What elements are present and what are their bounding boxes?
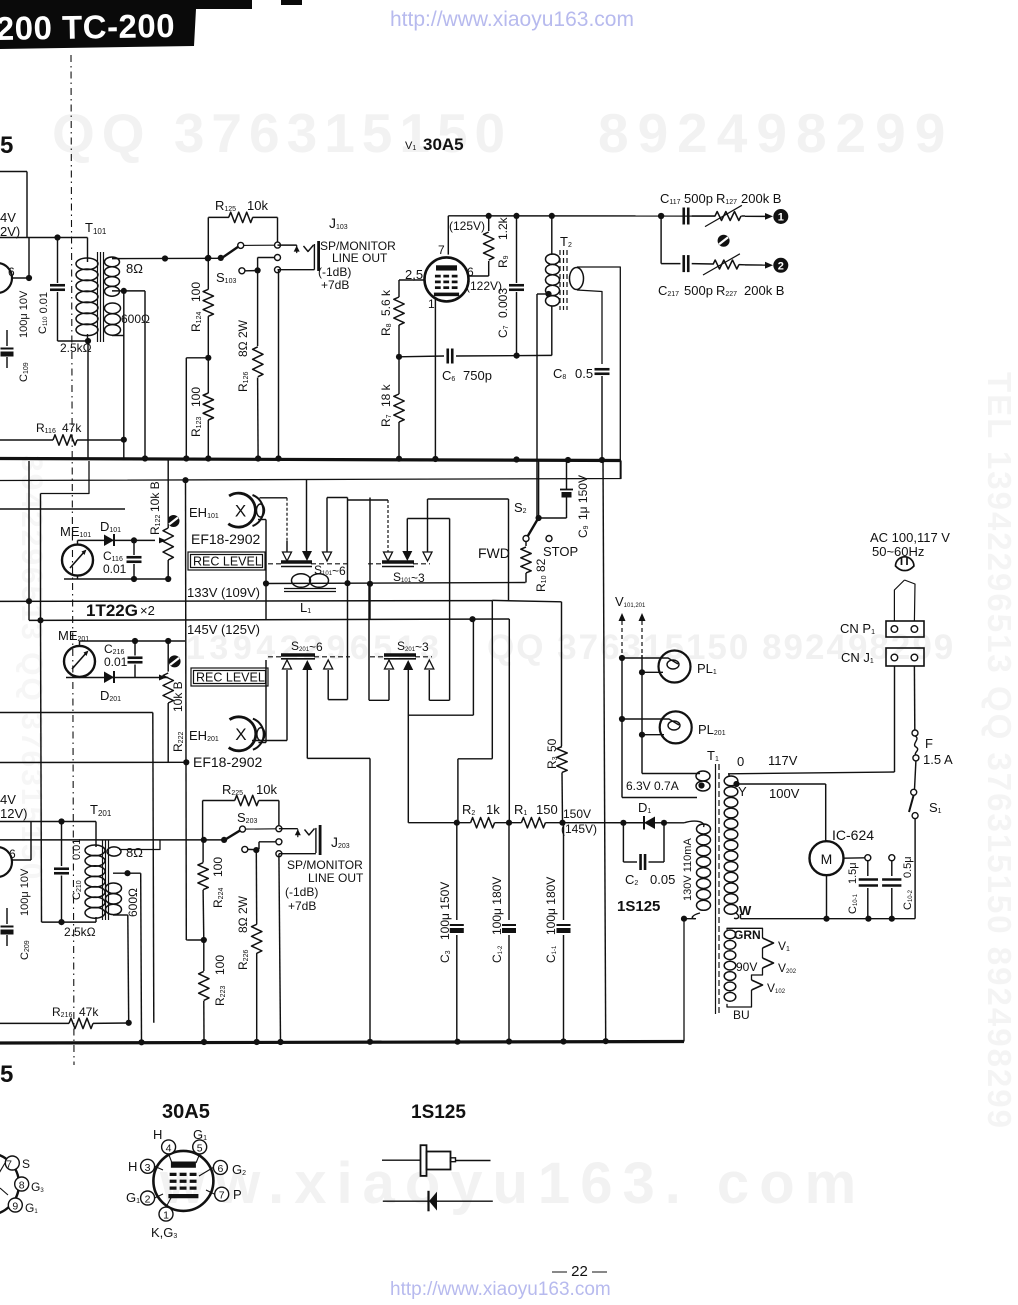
- label S201-3: [397, 639, 429, 654]
- wire T2 primary bottom leg: [551, 306, 553, 355]
- svg-text:100: 100: [213, 955, 227, 975]
- svg-text:+7dB: +7dB: [321, 278, 349, 292]
- svg-text:EF18-2902: EF18-2902: [193, 754, 262, 770]
- svg-text:100: 100: [189, 282, 203, 302]
- wire S201-6 right leg: [328, 670, 347, 700]
- terminal 1: [773, 209, 788, 224]
- tube V1: [425, 257, 469, 301]
- label R225 10k: [222, 782, 277, 797]
- wire bus B- upper: [0, 459, 621, 461]
- pin 3: [141, 1159, 155, 1174]
- label ME201: [58, 628, 89, 643]
- label C2 0.05: [625, 872, 675, 887]
- rec level box ch1: [188, 552, 265, 570]
- svg-text:0.01: 0.01: [71, 839, 83, 860]
- head EH201: [229, 717, 265, 751]
- label G1 top: [193, 1127, 207, 1142]
- label 117V: [768, 753, 798, 768]
- switch S101-6 bar: [281, 562, 312, 567]
- svg-text:0.5: 0.5: [575, 366, 593, 381]
- label C209 100u 10V: [19, 868, 31, 960]
- wire W rail: [741, 914, 916, 922]
- potentiometer R222: [159, 641, 173, 763]
- label R127 200k B: [716, 191, 781, 206]
- label D101: [100, 519, 121, 534]
- svg-text:8Ω: 8Ω: [126, 845, 143, 860]
- svg-text:4V: 4V: [0, 210, 16, 225]
- node dots on upper bus: [142, 455, 605, 463]
- resistor R216: [0, 1018, 132, 1028]
- transformer T101 secondary 600ohm: [105, 303, 121, 336]
- capacitor C1-2: [502, 823, 516, 1042]
- svg-text:150: 150: [536, 802, 558, 817]
- fold mark dashed line: [71, 55, 74, 1065]
- node R224 R223: [186, 937, 207, 943]
- label 5 left top: [0, 132, 13, 159]
- switch S101-3 arrows: [384, 551, 433, 561]
- svg-text:2V): 2V): [0, 224, 20, 239]
- screw R127: [718, 235, 730, 247]
- label CN J1: [841, 650, 874, 665]
- svg-text:http://www.xiaoyu163.com: http://www.xiaoyu163.com: [390, 8, 634, 31]
- label R116 47k: [36, 421, 82, 435]
- label 30A5 socket title: [162, 1101, 210, 1123]
- svg-text:100: 100: [211, 857, 225, 877]
- label R3 50: [545, 738, 559, 769]
- svg-text:IC-624: IC-624: [832, 827, 874, 843]
- label C10-2 0.5u: [902, 856, 914, 910]
- label EF18-2902 ch2: [193, 754, 262, 770]
- resistor R3: [557, 602, 567, 823]
- capacitor C216: [128, 641, 143, 678]
- label S101-3: [393, 570, 425, 585]
- label D201: [100, 688, 121, 703]
- wire R225 right leg: [278, 801, 280, 826]
- wire T1 primary top: [728, 666, 895, 774]
- svg-text:CN J1: CN J1: [841, 650, 874, 665]
- svg-text:0.05: 0.05: [650, 872, 675, 887]
- node R8 R7 C6: [396, 354, 402, 360]
- svg-text:200k B: 200k B: [744, 283, 784, 298]
- label C217 500p: [658, 283, 713, 298]
- label R2 1k: [462, 802, 500, 817]
- svg-text:(125V): (125V): [449, 219, 485, 233]
- label R10 82: [534, 558, 548, 592]
- arrow V101 right: [639, 613, 646, 774]
- wire T2 tap to S2 col: [537, 294, 549, 518]
- wire col 473: [408, 619, 473, 715]
- label FWD: [478, 545, 510, 561]
- title banner TC-200: [0, 0, 302, 49]
- label S201-6: [291, 639, 323, 654]
- svg-text:47k: 47k: [62, 421, 82, 435]
- label 90V: [736, 960, 757, 974]
- label 1S125 D1: [617, 898, 660, 915]
- switch S1: [909, 789, 918, 818]
- svg-text:2.5kΩ: 2.5kΩ: [60, 341, 92, 355]
- label C110 0.01: [37, 292, 50, 334]
- svg-text:6: 6: [8, 265, 15, 279]
- chevron V202: [763, 958, 797, 975]
- capacitor C6: [399, 349, 552, 364]
- wire 6.3V bottom: [622, 797, 697, 799]
- lamp PL201: [619, 711, 692, 743]
- label EH101: [189, 505, 219, 520]
- label 600 ohm ch1: [121, 312, 150, 326]
- pin 2: [141, 1191, 155, 1206]
- label C3 100u 150V: [438, 882, 452, 963]
- capacitor C10-1: [859, 855, 878, 919]
- potentiometer R122: [159, 460, 173, 579]
- label C116 0.01: [103, 549, 127, 576]
- wire pin6 ch1: [11, 238, 32, 282]
- switch S201-6 bar: [281, 655, 315, 659]
- svg-text:9: 9: [12, 1201, 18, 1213]
- svg-text:90V: 90V: [736, 960, 757, 974]
- label S101-6: [314, 563, 346, 578]
- transformer T2 core: [560, 250, 567, 310]
- svg-text:8Ω 2W: 8Ω 2W: [236, 895, 250, 933]
- label R8 5.6k: [379, 289, 393, 336]
- label R227 200k B: [716, 283, 784, 298]
- switch S203 contacts: [242, 839, 282, 857]
- jack J203 body: [316, 825, 320, 855]
- svg-text:CN P1: CN P1: [840, 621, 875, 636]
- wire fuse to CNJ1: [913, 666, 915, 730]
- wire V1 pin7: [447, 216, 449, 255]
- motor M: [810, 841, 844, 875]
- label R124 100: [189, 282, 203, 332]
- svg-text:FWD: FWD: [478, 545, 510, 561]
- wire step y509: [0, 508, 125, 510]
- svg-text:750p: 750p: [463, 368, 492, 383]
- svg-text:QQ 376315150: QQ 376315150: [52, 102, 512, 164]
- diode D201: [104, 671, 114, 683]
- svg-text:M: M: [821, 851, 833, 867]
- label T201: [90, 802, 112, 818]
- wire S101-3 mid arrow leg: [407, 519, 449, 552]
- label pin 6: [467, 265, 474, 279]
- wire 8ohm/600ohm tap ch1: [112, 288, 145, 459]
- svg-text:http://www.xiaoyu163.com: http://www.xiaoyu163.com: [390, 1279, 611, 1300]
- svg-text:7: 7: [6, 1159, 12, 1171]
- label BU: [733, 1008, 750, 1022]
- wire input rail ch2: [0, 818, 96, 824]
- transformer T1 winding 63: [696, 771, 710, 791]
- transformer T1 winding 130: [684, 821, 710, 919]
- svg-text:0.5μ: 0.5μ: [902, 856, 914, 878]
- svg-text:7: 7: [219, 1190, 225, 1202]
- label V1 30A5 heading: [405, 135, 464, 154]
- label 600ohm ch2: [126, 888, 140, 917]
- capacitor C209: [1, 908, 14, 946]
- svg-text:×2: ×2: [140, 603, 155, 618]
- label 130V 110mA: [682, 838, 694, 901]
- label 2.5kOhm ch1: [60, 341, 92, 355]
- svg-text:145V (125V): 145V (125V): [187, 622, 260, 637]
- label 50-60Hz: [872, 544, 924, 559]
- wire motor bottom: [826, 875, 828, 919]
- label D1: [638, 800, 651, 815]
- label L1: [300, 600, 311, 615]
- wire ME101 top rail: [78, 537, 156, 545]
- switch S201-3 arrows: [385, 660, 434, 670]
- chevron V102: [752, 980, 786, 995]
- label S103: [216, 270, 236, 285]
- label R123 100: [189, 387, 203, 437]
- pin 7: [215, 1187, 229, 1202]
- label G2 right: [232, 1162, 246, 1177]
- fuse F: [912, 730, 919, 790]
- wire S1 col right: [914, 819, 916, 919]
- wire to terminal 2: [745, 262, 773, 269]
- wire R125 left leg: [207, 217, 209, 289]
- label S203: [237, 810, 257, 825]
- wire 6.3V top: [642, 773, 700, 775]
- wire S203 blade rail: [0, 837, 227, 843]
- diode 1S125 package: [382, 1145, 491, 1176]
- diode 1S125 symbol: [383, 1191, 493, 1212]
- rec level box ch2: [191, 668, 268, 686]
- watermark right vertical TEL: [981, 372, 1018, 1130]
- label R223 100: [213, 955, 227, 1006]
- svg-text:1: 1: [778, 212, 784, 224]
- svg-text:500p: 500p: [684, 283, 713, 298]
- resistor R2: [471, 818, 495, 828]
- svg-text:130V 110mA: 130V 110mA: [682, 838, 694, 901]
- label R125 10k: [215, 198, 268, 213]
- switch S103 blade: [205, 242, 280, 261]
- svg-text:100μ 10V: 100μ 10V: [19, 868, 31, 916]
- wire V1 heater 2_5: [399, 280, 425, 297]
- resistor R125: [208, 212, 277, 222]
- tube socket 30A5: [153, 1151, 213, 1211]
- svg-text:30A5: 30A5: [423, 135, 464, 154]
- label R122 10k B: [148, 481, 162, 535]
- resistor R1: [521, 818, 545, 828]
- label 1T22G x2: [86, 601, 155, 620]
- label R9 1.2k: [496, 216, 510, 268]
- transformer T1 core: [716, 764, 720, 1014]
- wire 130V bottom: [681, 916, 696, 1042]
- label CN P1: [840, 621, 875, 636]
- svg-text:8Ω: 8Ω: [126, 261, 143, 276]
- svg-text:SP/MONITOR: SP/MONITOR: [287, 858, 363, 872]
- svg-text:(-1dB): (-1dB): [318, 265, 351, 279]
- svg-text:S: S: [22, 1157, 30, 1171]
- svg-text:TEL 13942296513 QQ 376315150 8: TEL 13942296513 QQ 376315150 892498299: [981, 372, 1018, 1130]
- mech dashes S101 row: [268, 563, 430, 565]
- label 100V: [769, 786, 800, 801]
- transformer T2 secondary: [570, 268, 584, 290]
- lamp PL1: [619, 651, 691, 683]
- tube V202 partial ch2: [0, 847, 12, 877]
- label tap 0: [737, 754, 744, 769]
- label ME101: [60, 524, 91, 539]
- svg-text:117V: 117V: [768, 753, 798, 768]
- wire R125 right leg: [277, 217, 279, 242]
- svg-text:+7dB: +7dB: [288, 899, 316, 913]
- head EH101: [228, 493, 264, 527]
- resistor R124: [203, 289, 213, 358]
- page number: [552, 1263, 607, 1280]
- label S1: [929, 800, 942, 815]
- svg-text:5.6 k: 5.6 k: [379, 289, 393, 316]
- url bottom: [390, 1279, 611, 1300]
- svg-text:0.01: 0.01: [104, 655, 128, 669]
- svg-text:82: 82: [534, 558, 548, 572]
- label J203: [331, 834, 350, 850]
- label PL1: [697, 661, 717, 676]
- svg-text:600Ω: 600Ω: [126, 888, 140, 917]
- svg-text:100μ 10V: 100μ 10V: [18, 290, 30, 338]
- node dots on y478 line: [182, 477, 188, 483]
- potentiometer R227: [703, 254, 745, 275]
- watermark QQ top row: [52, 102, 954, 164]
- label R216 47k: [52, 1005, 99, 1019]
- label 1S125 title: [411, 1102, 466, 1123]
- label STOP: [543, 544, 578, 559]
- svg-text:30A5: 30A5: [162, 1101, 210, 1123]
- wire long col 603: [603, 460, 606, 1041]
- label C9 1u 150V: [576, 475, 590, 538]
- switch S201-3 bar: [384, 655, 416, 659]
- svg-text:200 TC-200: 200 TC-200: [0, 7, 175, 47]
- wire S103 low contact: [245, 270, 258, 272]
- label 133V (109V): [187, 585, 260, 600]
- inductor L1: [284, 574, 336, 592]
- svg-text:6: 6: [467, 265, 474, 279]
- jack J103 tip wire: [278, 245, 314, 253]
- svg-text:1: 1: [428, 297, 435, 311]
- label S2: [514, 500, 527, 515]
- label J103: [329, 215, 348, 231]
- svg-text:— 22 —: — 22 —: [552, 1263, 607, 1280]
- label 4V (12V) ch1: [0, 210, 20, 239]
- node dots on lower bus: [138, 1038, 608, 1045]
- wire to terminal 1: [745, 213, 773, 220]
- wire BU box: [727, 928, 763, 1007]
- capacitor C3: [450, 823, 464, 1042]
- wire plate rail y216: [448, 213, 715, 219]
- wire R225 left leg: [202, 801, 204, 840]
- watermark left vertical TEL: [15, 455, 48, 881]
- jack J103 body: [314, 241, 318, 271]
- svg-text:1μ 150V: 1μ 150V: [576, 475, 590, 520]
- label P right: [233, 1187, 242, 1202]
- node R124/R123 junction: [186, 355, 211, 459]
- capacitor C10-2: [882, 855, 901, 919]
- watermark bottom www: [159, 1151, 866, 1216]
- wire S201-6 left leg: [252, 670, 287, 741]
- resistor R9: [467, 216, 494, 276]
- switch S101-6 arrows: [283, 551, 332, 561]
- svg-text:6: 6: [9, 847, 16, 861]
- label R224 100: [211, 857, 225, 908]
- label V101-201: [615, 594, 646, 609]
- mech dashes S201 row: [268, 656, 432, 658]
- switch S203 blade: [226, 826, 282, 840]
- svg-text:3: 3: [145, 1162, 151, 1174]
- svg-text:QQ 376315150 892498299: QQ 376315150 892498299: [487, 628, 955, 667]
- wire ME101 bottom rail: [64, 576, 171, 583]
- label T2: [560, 234, 572, 249]
- wire S203 mid contact: [248, 842, 276, 850]
- wire col 29: [28, 461, 30, 620]
- resistor R223: [199, 940, 209, 1042]
- svg-text:1.5μ: 1.5μ: [847, 862, 859, 884]
- label K G3 bottom: [151, 1225, 177, 1240]
- svg-text:4: 4: [166, 1142, 172, 1154]
- svg-text:LINE OUT: LINE OUT: [332, 251, 388, 265]
- svg-text:0.003: 0.003: [496, 288, 510, 318]
- wire S101-3 right arrow leg: [428, 499, 509, 552]
- label F 1.5A: [923, 736, 953, 767]
- svg-text:F: F: [925, 736, 933, 751]
- label 5 left bottom: [0, 1061, 13, 1088]
- wire tap Y to motor: [733, 781, 825, 842]
- resistor R123: [203, 358, 213, 459]
- svg-text:133V (109V): 133V (109V): [187, 585, 260, 600]
- wire S203 to R226: [255, 850, 257, 1042]
- svg-text:AC 100,117 V: AC 100,117 V: [870, 530, 950, 545]
- wire col 370 upper: [367, 498, 373, 621]
- wire vert 186 mid: [185, 480, 188, 940]
- svg-text:12V): 12V): [0, 806, 27, 821]
- svg-text:EF18-2902: EF18-2902: [191, 531, 260, 547]
- wire input box ch1: [0, 172, 27, 238]
- label C216 0.01: [104, 642, 128, 669]
- wire C217 drop: [658, 213, 664, 264]
- wire S201-3 mid leg: [407, 670, 409, 823]
- svg-text:0.01: 0.01: [103, 562, 127, 576]
- capacitor C116: [127, 540, 142, 579]
- label R1 150: [514, 802, 558, 817]
- label C210 0.01: [71, 839, 83, 900]
- svg-text:10k B: 10k B: [148, 481, 162, 512]
- capacitor C1-1: [557, 823, 571, 1042]
- wire 8ohm top to S103: [112, 255, 221, 261]
- svg-text:1.2k: 1.2k: [496, 216, 510, 240]
- wire ch2 600 bottom: [113, 915, 129, 1023]
- resistor R7: [394, 357, 404, 459]
- wire T2 primary top leg: [551, 216, 553, 255]
- wire rail 133V: [0, 598, 492, 604]
- wire col 347: [344, 498, 350, 700]
- svg-text:2.5kΩ: 2.5kΩ: [64, 925, 96, 939]
- wire 600ohm bottom ch1: [112, 291, 124, 459]
- label R126 8ohm 2W: [236, 319, 250, 392]
- wire motor to C10: [844, 857, 865, 859]
- pin 1: [159, 1207, 173, 1222]
- capacitor C117: [684, 208, 716, 225]
- svg-text:100μ 180V: 100μ 180V: [490, 877, 504, 935]
- wire step y4935: [41, 461, 90, 620]
- transformer T201 sec 600ohm: [106, 883, 122, 915]
- svg-text:5: 5: [0, 132, 13, 159]
- svg-text:100: 100: [189, 387, 203, 407]
- svg-text:1T22G: 1T22G: [86, 601, 138, 620]
- label C6 750p: [442, 368, 492, 383]
- svg-text:10k B: 10k B: [171, 681, 185, 712]
- capacitor C8: [595, 369, 610, 460]
- wire S101-6 right arrow leg: [327, 498, 348, 553]
- label (125V): [449, 219, 485, 233]
- svg-text:6.3V 0.7A: 6.3V 0.7A: [626, 779, 679, 793]
- capacitor C7: [509, 216, 524, 355]
- resistor R224: [198, 840, 208, 940]
- svg-text:892498299: 892498299: [598, 102, 954, 164]
